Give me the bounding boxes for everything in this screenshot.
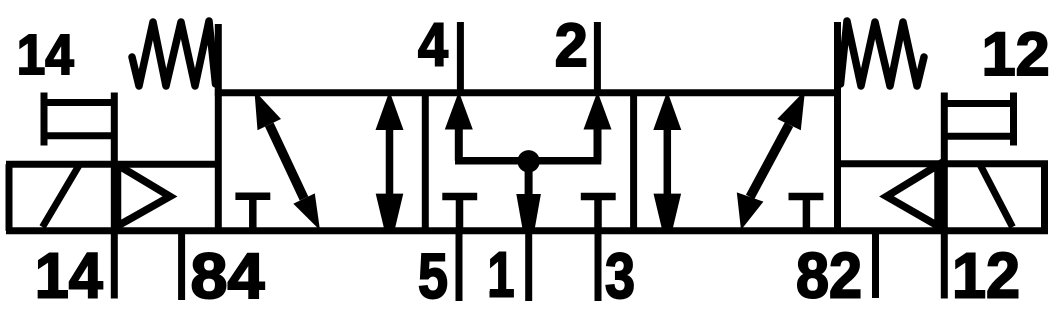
port 1 line [525,229,532,301]
centre box arrow to port 1 stem [525,161,533,199]
centre box arrow to port 4 stem [455,126,463,161]
left box blocked port T stem [249,196,257,231]
pilot 14 rect top bar [44,99,114,106]
port 82 line [872,231,879,298]
port 4 line [457,22,464,94]
svg-text:12: 12 [982,20,1050,88]
position divider right [630,93,637,231]
right box diagonal arrow head up [777,91,805,131]
right box vertical arrow head down [654,194,682,230]
left return spring [132,21,216,86]
pilot 14 rect bottom bar [44,132,114,139]
port 2 line [594,22,601,94]
svg-text:12: 12 [952,240,1020,312]
centre box blocked port 3 T crossbar [581,193,616,201]
right box blocked port T stem [803,197,811,231]
svg-text:1: 1 [488,239,515,311]
position divider left [422,93,429,231]
svg-text:14: 14 [17,23,74,87]
left solenoid diagonal stroke [43,165,80,228]
valve body bottom edge [6,227,1048,234]
svg-text:84: 84 [191,240,265,312]
port 5 line [456,229,463,301]
left box diagonal arrow shaft [269,125,304,199]
left box diagonal arrow head down [293,193,320,230]
pilot line 12 vertical [941,93,948,299]
centre box arrow to port 2 stem [594,126,602,161]
pilot 12 rect bottom bar [944,133,1013,140]
left box diagonal arrow head up [254,91,281,131]
port 84 line [178,231,185,300]
left box vertical arrow head down [376,194,404,230]
svg-text:5: 5 [418,240,448,312]
centre box blocked port 3 T stem [594,197,602,231]
pilot line 14 vertical [111,93,118,299]
centre box blocked port 5 T crossbar [442,193,477,201]
right solenoid box top edge [838,160,1049,167]
right box vertical arrow head up [653,91,681,130]
centre box arrow to port 2 head [584,92,612,130]
svg-text:4: 4 [418,11,448,79]
valve body right edge [834,22,841,231]
centre box blocked port 5 T stem [456,197,464,231]
pilot 12 rect top bar [944,100,1013,107]
right box diagonal arrow shaft [750,125,789,197]
port 3 line [595,229,602,301]
left box vertical arrow shaft [386,126,394,195]
left solenoid box left edge [6,164,13,231]
svg-text:82: 82 [796,240,862,312]
left pilot triangle [118,165,171,226]
right pilot triangle [887,165,939,226]
right box diagonal arrow head down [737,192,764,230]
pilot 14 rect left tick [41,93,48,146]
right solenoid box right edge [1041,164,1048,231]
svg-text:2: 2 [555,11,588,79]
centre box arrow to port 4 head [445,92,473,130]
left solenoid box top edge [6,161,218,168]
left box vertical arrow head up [376,91,404,130]
svg-text:3: 3 [605,240,635,312]
pilot 12 rect right tick [1010,93,1017,146]
centre box arrow to port 1 head [516,194,541,230]
right solenoid diagonal stroke [980,165,1013,228]
centre box junction dot [517,150,539,172]
left box blocked port T crossbar [235,192,270,200]
right return spring [841,21,925,86]
valve body top edge [215,89,841,96]
centre box manifold line [455,157,601,165]
right box blocked port T crossbar [789,193,824,201]
svg-text:14: 14 [35,240,103,312]
valve body left edge [215,24,222,231]
right box vertical arrow shaft [664,126,672,195]
